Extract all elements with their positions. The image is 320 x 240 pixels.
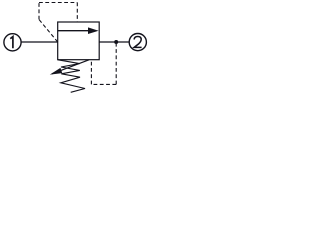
port label 2 bbox=[134, 37, 142, 48]
adjustment arrowhead bbox=[50, 68, 63, 75]
flow arrowhead bbox=[88, 27, 99, 34]
pilot line dashed: top run bbox=[39, 2, 77, 4]
wire valve body to port 2 bbox=[99, 41, 129, 43]
pilot line dashed: diagonal tap from inlet bbox=[39, 20, 58, 43]
spring bbox=[58, 60, 85, 93]
drain line dashed: bottom run bbox=[91, 83, 116, 85]
adjustment arrow shaft bbox=[52, 60, 89, 74]
port circle 1 bbox=[4, 34, 21, 51]
wire port1 to valve body bbox=[21, 41, 58, 43]
junction dot bbox=[114, 40, 118, 44]
valve body envelope bbox=[58, 22, 99, 60]
drain line dashed: drop from junction bbox=[115, 44, 117, 84]
flow arrow shaft bbox=[58, 30, 90, 32]
pilot line dashed: drop to envelope top bbox=[76, 3, 78, 22]
pilot line dashed: left riser bbox=[38, 3, 40, 20]
drain line dashed: riser to spring chamber bbox=[90, 60, 92, 84]
port circle 2 bbox=[129, 34, 146, 51]
port label 1 bbox=[10, 37, 13, 49]
